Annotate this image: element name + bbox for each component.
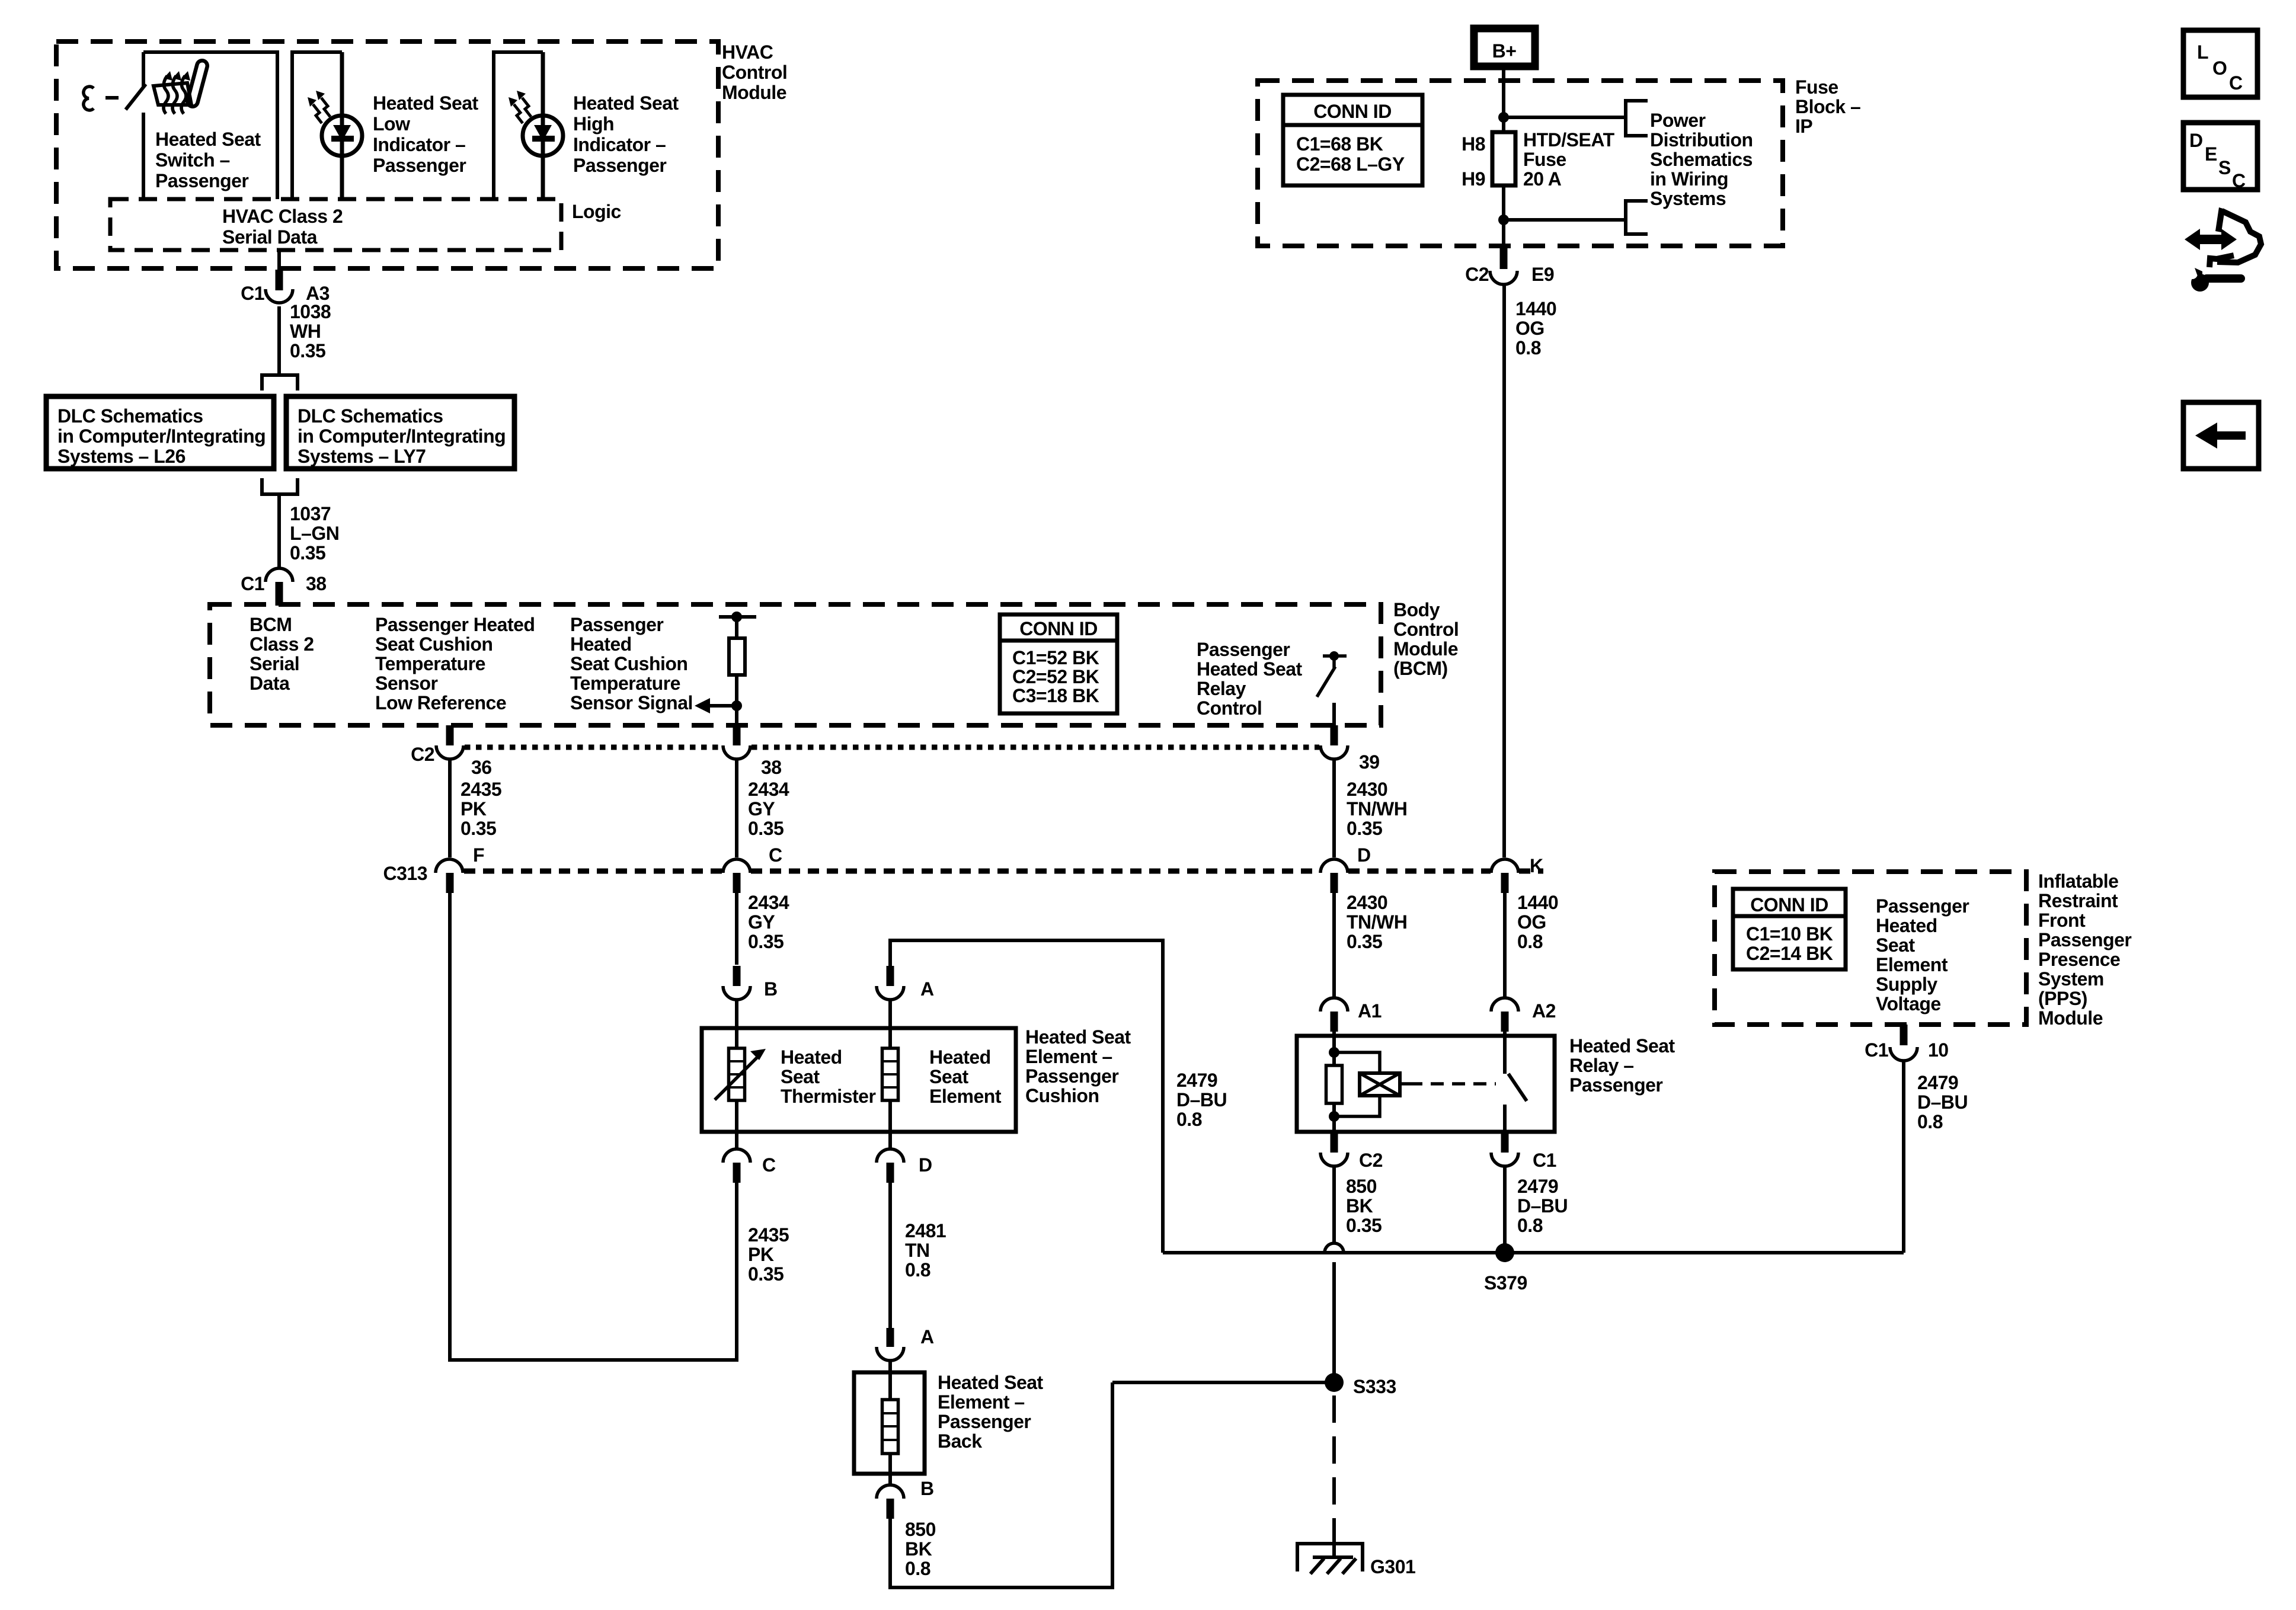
- svg-text:0.35: 0.35: [748, 1263, 784, 1285]
- svg-text:10: 10: [1928, 1039, 1949, 1061]
- svg-text:Sensor Signal: Sensor Signal: [570, 692, 693, 713]
- svg-text:Logic: Logic: [572, 201, 621, 222]
- svg-text:Control: Control: [1393, 619, 1459, 640]
- svg-text:CONN ID: CONN ID: [1750, 894, 1828, 916]
- svg-text:Seat Cushion: Seat Cushion: [375, 633, 493, 655]
- wire 2435 PK 0.35 (pin 36 to C313 F): [450, 759, 501, 857]
- connector C (element cushion, to 2435 PK): [723, 1132, 776, 1183]
- svg-text:in Wiring: in Wiring: [1650, 168, 1728, 190]
- svg-text:Relay: Relay: [1197, 678, 1246, 699]
- wire 1440 OG 0.8 (C313 K to relay A2): [1505, 892, 1558, 998]
- svg-text:C: C: [762, 1154, 776, 1176]
- connector C313 pin D: [1320, 844, 1371, 893]
- DLC Schematics L26 box: [46, 396, 274, 469]
- connector B (heated seat element cushion): [723, 966, 778, 1028]
- feed bracket to power distribution (bottom): [1626, 201, 1648, 234]
- svg-text:A: A: [920, 1326, 934, 1347]
- node at fuse bottom: [1498, 215, 1626, 225]
- CONN ID box (PPS): [1733, 889, 1846, 969]
- svg-text:A2: A2: [1532, 1000, 1556, 1022]
- sensor signal node and arrow: [695, 698, 742, 713]
- svg-text:B+: B+: [1492, 40, 1517, 62]
- svg-text:L: L: [2197, 41, 2208, 63]
- svg-text:36: 36: [471, 757, 492, 778]
- svg-text:Inflatable: Inflatable: [2038, 870, 2118, 892]
- svg-text:C: C: [769, 844, 782, 866]
- connector C313 pin K: [1491, 855, 1543, 893]
- svg-text:850: 850: [1346, 1176, 1377, 1197]
- svg-text:Temperature: Temperature: [375, 653, 485, 674]
- svg-text:CONN ID: CONN ID: [1019, 618, 1098, 639]
- connector C2 pin 36: [411, 725, 492, 778]
- svg-text:C1=68 BK: C1=68 BK: [1296, 133, 1383, 155]
- node at fuse top: [1498, 112, 1626, 123]
- svg-text:0.8: 0.8: [1917, 1111, 1943, 1132]
- svg-text:IP: IP: [1795, 116, 1812, 137]
- svg-text:in Computer/Integrating: in Computer/Integrating: [298, 425, 506, 447]
- heated seat element (back) heater: [882, 1372, 898, 1474]
- relay coil (parallel branch with X symbol): [1334, 1052, 1400, 1116]
- svg-text:Body: Body: [1393, 599, 1440, 620]
- relay coil-to-contact dashed link: [1400, 1082, 1496, 1086]
- svg-text:0.35: 0.35: [290, 340, 325, 361]
- splice bracket to DLC boxes (top): [262, 375, 298, 391]
- svg-text:Serial Data: Serial Data: [222, 226, 318, 248]
- svg-text:HTD/SEAT: HTD/SEAT: [1523, 129, 1615, 151]
- svg-text:Passenger: Passenger: [1197, 639, 1290, 660]
- heated seat switch S - Passenger: [84, 52, 277, 199]
- svg-text:Systems: Systems: [1650, 188, 1726, 209]
- svg-text:G301: G301: [1370, 1556, 1415, 1577]
- BCM Class 2 Serial Data label: [250, 614, 314, 694]
- svg-text:in Computer/Integrating: in Computer/Integrating: [57, 425, 266, 447]
- svg-text:C2=68 L–GY: C2=68 L–GY: [1296, 153, 1405, 175]
- Passenger Heated Seat Element Supply Voltage label: [1876, 895, 1969, 1014]
- wire 1038 WH 0.35: [279, 301, 331, 373]
- svg-text:2434: 2434: [748, 779, 789, 800]
- S379 splice bus: [1163, 1243, 1904, 1294]
- wire from S333 jog down-left to element back B: [890, 1382, 1112, 1587]
- svg-text:D: D: [1357, 844, 1371, 866]
- svg-text:Heated Seat: Heated Seat: [1569, 1035, 1675, 1057]
- connector A2 (relay): [1491, 998, 1556, 1037]
- CONN ID box (BCM): [1000, 614, 1117, 713]
- svg-text:C2=14 BK: C2=14 BK: [1746, 943, 1833, 964]
- svg-text:Element –: Element –: [938, 1391, 1025, 1413]
- svg-text:C1: C1: [241, 573, 264, 594]
- svg-text:Relay –: Relay –: [1569, 1055, 1634, 1076]
- svg-text:Thermister: Thermister: [781, 1086, 875, 1107]
- svg-text:TN/WH: TN/WH: [1347, 798, 1407, 820]
- LOC legend box: [2183, 30, 2257, 97]
- Passenger Heated Seat Cushion Temperature Sensor Low Reference label: [375, 614, 535, 713]
- svg-text:Serial: Serial: [250, 653, 299, 674]
- svg-text:Module: Module: [1393, 638, 1458, 660]
- svg-text:F: F: [473, 844, 484, 866]
- svg-text:0.35: 0.35: [1347, 818, 1382, 839]
- Power Distribution Schematics label: [1650, 110, 1753, 209]
- svg-text:B: B: [764, 978, 778, 1000]
- Passenger Heated Seat Cushion Temperature Sensor Signal label: [570, 614, 693, 713]
- wire 2479 D-BU 0.8 (PPS C1 10 down to S379): [1904, 1061, 1968, 1253]
- ground G301: [1297, 1544, 1415, 1577]
- svg-text:C1=10 BK: C1=10 BK: [1746, 923, 1833, 945]
- svg-text:850: 850: [905, 1519, 936, 1540]
- svg-text:1038: 1038: [290, 301, 331, 322]
- svg-text:38: 38: [306, 573, 327, 594]
- svg-text:C2: C2: [411, 744, 434, 765]
- svg-text:Element: Element: [929, 1086, 1002, 1107]
- svg-text:1440: 1440: [1517, 892, 1558, 913]
- svg-text:K: K: [1530, 855, 1543, 876]
- svg-text:D–BU: D–BU: [1517, 1195, 1568, 1217]
- svg-text:0.35: 0.35: [748, 818, 784, 839]
- svg-text:2479: 2479: [1917, 1072, 1958, 1093]
- connector A (heated seat element cushion): [877, 966, 934, 1028]
- battery feed B+: [1474, 28, 1535, 117]
- svg-text:1037: 1037: [290, 503, 331, 524]
- svg-text:Control: Control: [722, 62, 787, 83]
- svg-text:Passenger: Passenger: [573, 155, 666, 176]
- svg-text:HVAC Class 2: HVAC Class 2: [222, 206, 343, 227]
- dashed ground lead from S333: [1332, 1395, 1336, 1557]
- Heated Seat Element - Passenger Back box: [854, 1372, 1044, 1474]
- wire 850 BK 0.35 (relay C2 down, hops S379 bus): [1325, 1166, 1382, 1382]
- svg-text:0.35: 0.35: [1346, 1215, 1382, 1236]
- svg-text:38: 38: [761, 757, 782, 778]
- connector C2 pin E9: [1465, 220, 1554, 285]
- Fuse Block - IP box: [1258, 76, 1860, 246]
- svg-text:H8: H8: [1462, 133, 1485, 155]
- svg-text:TN: TN: [905, 1240, 930, 1261]
- svg-text:Heated: Heated: [781, 1046, 842, 1068]
- relay coil branch node (top): [1329, 1037, 1339, 1065]
- heated seat icon: [154, 66, 202, 114]
- svg-text:Supply: Supply: [1876, 974, 1937, 995]
- connector C1 pin A3: [241, 270, 330, 304]
- svg-text:Heated Seat: Heated Seat: [938, 1372, 1044, 1393]
- svg-text:0.8: 0.8: [905, 1259, 930, 1281]
- connector C2 pin 39: [1320, 725, 1380, 773]
- svg-text:E9: E9: [1531, 264, 1554, 285]
- svg-text:C2: C2: [1359, 1150, 1383, 1171]
- Heated Seat Relay - Passenger box: [1297, 1035, 1675, 1132]
- svg-text:Temperature: Temperature: [570, 673, 680, 694]
- svg-text:1440: 1440: [1515, 298, 1556, 319]
- connector A (heated seat element back): [877, 1326, 934, 1372]
- svg-text:PK: PK: [748, 1244, 774, 1265]
- svg-text:Heated: Heated: [929, 1046, 991, 1068]
- CONN ID box (fuse block): [1283, 95, 1422, 185]
- svg-text:Passenger: Passenger: [155, 170, 248, 191]
- svg-text:S379: S379: [1484, 1272, 1527, 1294]
- svg-text:Systems – L26: Systems – L26: [57, 446, 186, 467]
- svg-text:Heated: Heated: [570, 633, 632, 655]
- svg-text:Fuse: Fuse: [1795, 76, 1838, 98]
- splice bracket from DLC boxes (bottom): [262, 478, 298, 494]
- svg-text:2435: 2435: [748, 1224, 789, 1246]
- svg-text:Low: Low: [373, 113, 410, 135]
- svg-text:D: D: [2189, 130, 2203, 151]
- svg-text:Module: Module: [722, 82, 786, 103]
- heated seat thermister RT: [715, 1028, 875, 1132]
- svg-text:0.8: 0.8: [905, 1558, 930, 1579]
- temperature sense resistor inside BCM: [719, 612, 756, 725]
- svg-text:E: E: [2205, 143, 2217, 165]
- svg-text:20 A: 20 A: [1523, 168, 1562, 190]
- wire 2434 GY 0.35 (C313 C to element B): [737, 892, 789, 965]
- svg-text:Heated Seat: Heated Seat: [373, 92, 479, 114]
- svg-text:Seat: Seat: [781, 1066, 820, 1087]
- svg-text:(PPS): (PPS): [2038, 988, 2087, 1009]
- heated seat element (cushion) heater: [882, 1028, 1002, 1132]
- svg-text:Data: Data: [250, 673, 290, 694]
- svg-text:0.8: 0.8: [1517, 1215, 1543, 1236]
- svg-text:2430: 2430: [1347, 892, 1387, 913]
- LED D2 Heated Seat High Indicator - Passenger: [494, 52, 679, 199]
- wire from connector A up and over (2479 D-BU branch): [890, 940, 1227, 1253]
- svg-text:Passenger Heated: Passenger Heated: [375, 614, 535, 635]
- svg-text:PK: PK: [461, 798, 487, 820]
- svg-text:Heated Seat: Heated Seat: [573, 92, 679, 114]
- svg-text:WH: WH: [290, 321, 321, 342]
- svg-text:C: C: [2232, 170, 2246, 191]
- svg-text:GY: GY: [748, 798, 775, 820]
- svg-text:Heated Seat: Heated Seat: [155, 129, 261, 150]
- svg-text:BCM: BCM: [250, 614, 292, 635]
- svg-text:Fuse: Fuse: [1523, 149, 1566, 170]
- svg-text:BK: BK: [905, 1538, 932, 1560]
- wire from C313 F down to jog: [448, 893, 452, 1362]
- svg-text:D–BU: D–BU: [1176, 1089, 1227, 1110]
- svg-text:(BCM): (BCM): [1393, 658, 1448, 679]
- connector C313 dotted harness line: [383, 863, 1544, 884]
- svg-text:DLC Schematics: DLC Schematics: [57, 405, 203, 427]
- HVAC Control Module box: [56, 41, 787, 268]
- connector D (element cushion, to 2481 TN): [877, 1132, 932, 1183]
- relay control driver switch inside BCM: [1317, 651, 1347, 725]
- svg-text:Passenger: Passenger: [1569, 1074, 1662, 1096]
- svg-text:0.35: 0.35: [290, 542, 325, 564]
- svg-text:Passenger: Passenger: [938, 1411, 1031, 1432]
- svg-text:Passenger: Passenger: [1025, 1065, 1118, 1087]
- svg-text:2434: 2434: [748, 892, 789, 913]
- Heated Seat Element - Passenger Cushion box: [702, 1026, 1131, 1132]
- wire 1037 L-GN 0.35: [279, 494, 339, 568]
- svg-text:Heated Seat: Heated Seat: [1197, 658, 1303, 680]
- svg-text:2479: 2479: [1517, 1176, 1558, 1197]
- LED D1 Heated Seat Low Indicator - Passenger: [292, 52, 479, 199]
- svg-text:Cushion: Cushion: [1025, 1085, 1099, 1106]
- S333 splice: [1112, 1373, 1396, 1397]
- svg-text:Front: Front: [2038, 910, 2086, 931]
- connector row C2: dotted harness line: [465, 745, 722, 750]
- svg-text:C1=52 BK: C1=52 BK: [1012, 647, 1099, 668]
- svg-text:Passenger: Passenger: [2038, 929, 2131, 950]
- svg-text:Passenger: Passenger: [1876, 895, 1969, 917]
- svg-text:Seat Cushion: Seat Cushion: [570, 653, 687, 674]
- connector A1 (relay): [1320, 998, 1382, 1037]
- svg-text:Distribution: Distribution: [1650, 129, 1753, 151]
- svg-text:A1: A1: [1358, 1000, 1382, 1022]
- relay internal resistor: [1326, 1065, 1342, 1103]
- svg-text:C2: C2: [1465, 264, 1489, 285]
- relay switch contact: [1505, 1037, 1527, 1132]
- svg-text:C1: C1: [1865, 1039, 1888, 1061]
- wire 2435 PK 0.35 (C down to jog): [450, 1183, 789, 1360]
- svg-text:Control: Control: [1197, 697, 1262, 719]
- svg-text:S: S: [2218, 157, 2231, 178]
- wire 2479 D-BU 0.8 (relay C1 down to S379): [1505, 1166, 1568, 1253]
- svg-text:System: System: [2038, 968, 2104, 990]
- svg-text:39: 39: [1359, 751, 1380, 773]
- svg-text:OG: OG: [1515, 318, 1544, 339]
- wire 2430 TN/WH 0.35 (C313 D to relay A1): [1334, 892, 1407, 998]
- svg-text:Heated: Heated: [1876, 915, 1937, 936]
- fuse HTD/SEAT 20A: [1462, 117, 1614, 220]
- svg-text:Passenger: Passenger: [570, 614, 663, 635]
- svg-text:L–GN: L–GN: [290, 523, 339, 544]
- svg-text:Module: Module: [2038, 1007, 2103, 1029]
- svg-text:HVAC: HVAC: [722, 41, 773, 63]
- svg-text:C1: C1: [241, 283, 264, 304]
- DLC Schematics LY7 box: [286, 396, 514, 469]
- svg-text:Seat: Seat: [929, 1066, 968, 1087]
- svg-text:C313: C313: [383, 863, 428, 884]
- svg-text:Element –: Element –: [1025, 1046, 1112, 1067]
- svg-text:0.35: 0.35: [1347, 931, 1382, 952]
- svg-text:Restraint: Restraint: [2038, 890, 2118, 911]
- navigate arrows and wrench icon: [2185, 207, 2261, 292]
- svg-text:Schematics: Schematics: [1650, 149, 1753, 170]
- svg-text:Presence: Presence: [2038, 949, 2120, 970]
- svg-text:C3=18 BK: C3=18 BK: [1012, 685, 1099, 706]
- svg-text:O: O: [2212, 57, 2227, 79]
- connector C1 pin 38: [241, 568, 327, 606]
- wire 2481 TN 0.8 (D to element back A): [890, 1183, 946, 1328]
- connector C2 (relay, 850 BK): [1320, 1132, 1383, 1171]
- connector C313 pin F: [436, 844, 484, 893]
- connector C1 pin 10 (PPS): [1865, 1025, 1949, 1061]
- svg-text:Indicator –: Indicator –: [573, 134, 666, 155]
- relay coil branch node (bottom): [1329, 1103, 1339, 1132]
- svg-text:0.8: 0.8: [1517, 931, 1543, 952]
- DESC legend box: [2183, 123, 2257, 191]
- Passenger Heated Seat Relay Control label: [1197, 639, 1303, 719]
- connector C1 (relay, 2479 D-BU): [1491, 1132, 1556, 1171]
- svg-text:Class 2: Class 2: [250, 633, 314, 655]
- wire 850 BK 0.8 (element back B to S333): [890, 1519, 936, 1589]
- svg-text:Block –: Block –: [1795, 96, 1860, 117]
- Body Control Module (BCM) box: [210, 599, 1459, 725]
- svg-text:0.8: 0.8: [1176, 1109, 1202, 1130]
- svg-text:Heated Seat: Heated Seat: [1025, 1026, 1131, 1048]
- svg-text:Power: Power: [1650, 110, 1706, 131]
- feed bracket to power distribution (top): [1626, 101, 1648, 136]
- svg-text:S333: S333: [1353, 1376, 1396, 1397]
- wire 2434 GY 0.35 (pin 38 to C313 C): [737, 759, 789, 857]
- svg-text:Sensor: Sensor: [375, 673, 438, 694]
- connector B (heated seat element back): [877, 1474, 934, 1519]
- wire 1440 OG 0.8 (E9 down to C313 K): [1504, 285, 1556, 857]
- svg-text:2430: 2430: [1347, 779, 1387, 800]
- svg-text:B: B: [920, 1478, 934, 1499]
- svg-text:2481: 2481: [905, 1220, 946, 1241]
- svg-text:A: A: [920, 978, 934, 1000]
- svg-text:D: D: [919, 1154, 932, 1176]
- connector C2 pin 38: [723, 725, 782, 778]
- svg-text:BK: BK: [1346, 1195, 1373, 1217]
- svg-text:0.35: 0.35: [461, 818, 496, 839]
- wire from HVAC logic to connector C1: [277, 250, 281, 271]
- svg-text:0.8: 0.8: [1515, 337, 1541, 359]
- svg-text:C: C: [2229, 72, 2243, 94]
- HVAC Class 2 Serial Data logic box: [110, 199, 561, 250]
- wire 2430 TN/WH 0.35 (pin 39 to C313 D): [1334, 759, 1407, 857]
- svg-text:H9: H9: [1462, 168, 1485, 190]
- svg-text:Element: Element: [1876, 954, 1948, 975]
- svg-text:C2=52 BK: C2=52 BK: [1012, 666, 1099, 687]
- svg-text:Indicator –: Indicator –: [373, 134, 465, 155]
- svg-text:GY: GY: [748, 911, 775, 933]
- svg-text:TN/WH: TN/WH: [1347, 911, 1407, 933]
- svg-text:0.35: 0.35: [748, 931, 784, 952]
- svg-text:Low Reference: Low Reference: [375, 692, 506, 713]
- svg-text:High: High: [573, 113, 614, 135]
- svg-text:Back: Back: [938, 1430, 982, 1452]
- svg-text:C1: C1: [1533, 1150, 1556, 1171]
- svg-text:Voltage: Voltage: [1876, 993, 1941, 1014]
- svg-text:DLC Schematics: DLC Schematics: [298, 405, 443, 427]
- svg-text:2435: 2435: [461, 779, 501, 800]
- svg-text:OG: OG: [1517, 911, 1546, 933]
- svg-text:Switch –: Switch –: [155, 149, 230, 171]
- svg-text:2479: 2479: [1176, 1070, 1217, 1091]
- svg-text:CONN ID: CONN ID: [1313, 101, 1392, 122]
- back arrow box: [2183, 402, 2259, 469]
- svg-text:Systems – LY7: Systems – LY7: [298, 446, 426, 467]
- svg-text:Seat: Seat: [1876, 934, 1915, 956]
- Inflatable Restraint Front Passenger Presence System (PPS) Module box: [1715, 870, 2131, 1029]
- connector C313 pin C: [723, 844, 782, 893]
- svg-text:D–BU: D–BU: [1917, 1092, 1968, 1113]
- svg-text:Passenger: Passenger: [373, 155, 466, 176]
